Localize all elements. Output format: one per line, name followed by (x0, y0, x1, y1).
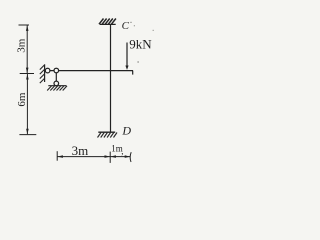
svg-text:3m: 3m (72, 143, 89, 158)
svg-text:3m: 3m (16, 38, 28, 53)
svg-text:D: D (121, 123, 131, 137)
svg-text:9kN: 9kN (129, 36, 152, 51)
svg-text:C: C (122, 20, 130, 32)
svg-text:6m: 6m (16, 92, 28, 107)
svg-text:,: , (121, 146, 123, 156)
